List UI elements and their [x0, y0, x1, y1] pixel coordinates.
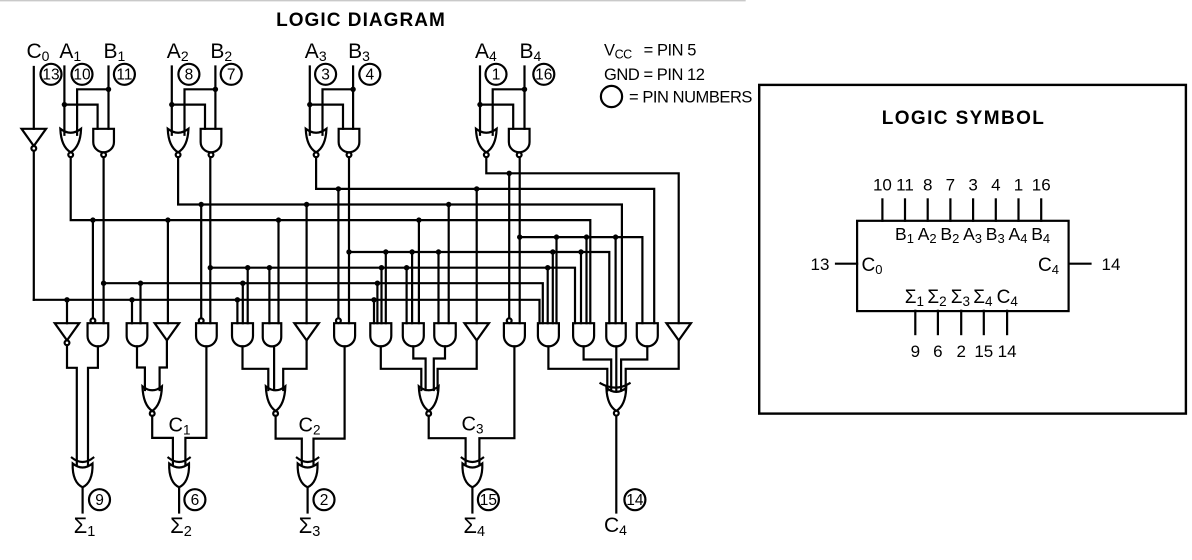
NAND gate bit3: [339, 129, 360, 153]
wire NOR2 bus tap x=306.6: [304, 202, 309, 207]
AND gate g11 (3-in): [403, 323, 424, 346]
wire C0n bus tap x=237.4: [235, 297, 240, 302]
pin circle 14 (C4 out): [624, 489, 645, 510]
wire g7 to C2 NOR: [273, 346, 275, 390]
wire NOR3 bus tap x=476.7: [474, 186, 479, 191]
svg-text:1: 1: [1014, 176, 1023, 195]
wire B2 input: [214, 67, 216, 129]
wire NAND3 bus tap x=412.1: [409, 249, 414, 254]
AND gate g18 (2-in): [637, 323, 658, 346]
wire A4 input: [479, 67, 481, 135]
wire NAND2 bus tap x=547.7: [545, 265, 550, 270]
pin circle 3 (A3): [315, 64, 336, 85]
wire NAND4 bus tap x=556.5: [554, 234, 559, 239]
wire NAND4 bus tap x=586.5: [584, 234, 589, 239]
XOR-AND gate bit3 (bubbled input): [336, 318, 341, 323]
pin circle 4 (B3): [359, 64, 380, 85]
symbol top pin 4: [995, 199, 997, 220]
wire NAND3 bus tap x=552.8: [550, 249, 555, 254]
wire B4 crossover to NOR: [493, 89, 525, 135]
XNOR gate C4 (carry out): [601, 383, 630, 387]
svg-text:6: 6: [191, 492, 200, 509]
wire B3 input: [352, 67, 354, 129]
svg-text:9: 9: [911, 342, 920, 361]
svg-text:15: 15: [480, 492, 497, 509]
symbol bottom pin 2: [960, 311, 962, 334]
wire xor-and2 to sum2 XOR: [185, 346, 206, 465]
wire NAND3 bus tap x=385.8: [383, 249, 388, 254]
pin circle 15 (sum4): [478, 489, 499, 510]
inverter C0 (top): [22, 129, 47, 146]
wire NAND1 output vertical: [102, 157, 104, 323]
wire g11 to C3 NOR: [413, 346, 425, 390]
svg-text:LOGIC DIAGRAM: LOGIC DIAGRAM: [276, 10, 446, 31]
wire sum3 output: [307, 487, 309, 512]
inverter row2 (C0 buffer for sum1): [55, 323, 80, 340]
XOR gate sum4: [462, 458, 483, 462]
symbol top pin 11: [904, 199, 906, 220]
NAND gate bit1: [93, 129, 114, 152]
wire g10 to C3 NOR: [381, 346, 422, 390]
symbol top pin 1: [1017, 199, 1019, 220]
symbol top pin 8: [927, 199, 929, 220]
svg-text:8: 8: [923, 176, 932, 195]
svg-text:4: 4: [365, 67, 374, 84]
AND gate g3 (C0n·P1): [127, 323, 148, 346]
wire sum2 output: [178, 487, 180, 512]
wire NAND2 bus tap x=269.4: [267, 265, 272, 270]
symbol top pin 16: [1040, 199, 1042, 220]
wire g18 to C4 gate: [621, 346, 647, 390]
wire g15 to C4 gate: [548, 346, 607, 390]
pin circle 6 (sum2): [184, 489, 205, 510]
wire NOR1 bus tap x=167.9: [165, 217, 170, 222]
wire g8 to C2 NOR: [283, 340, 306, 390]
AND gate g12 (2-in): [434, 323, 456, 346]
wire B2 crossover to NOR: [185, 89, 216, 135]
NOR gate bit1: [60, 129, 81, 153]
svg-text:15: 15: [974, 342, 993, 361]
NOR gate C1: [142, 386, 162, 411]
pin circle 7 (B2): [221, 64, 242, 85]
wire B1 crossover to NOR: [77, 89, 108, 135]
svg-text:11: 11: [116, 67, 132, 84]
logic symbol outer box: [759, 85, 1186, 414]
wire NOR2 bus tap x=448.7: [446, 202, 451, 207]
scan artifact line (top edge): [0, 0, 745, 2]
wire C1 to sum2 XOR: [152, 416, 173, 465]
wire C3 to sum4 XOR: [429, 416, 466, 465]
AND gate g17 (3-in): [606, 323, 626, 346]
svg-text:8: 8: [185, 67, 194, 84]
svg-text:3: 3: [968, 176, 977, 195]
AND gate g15 (5-in): [538, 323, 559, 346]
wire NAND3 bus tap x=581.0: [578, 249, 583, 254]
wire g4 to C1 NOR: [160, 340, 167, 390]
wire NOR2 output bus (y=204.5): [178, 157, 622, 323]
wire NOR2 bus tap x=201.2: [199, 202, 204, 207]
AND gate g10 (4-in): [370, 323, 391, 346]
symbol top pin 7: [949, 199, 951, 220]
svg-text:14: 14: [626, 492, 644, 509]
wire g6 to C2 NOR: [243, 346, 269, 390]
svg-text:14: 14: [998, 342, 1017, 361]
wire NAND2 bus (y=267.7): [210, 268, 575, 324]
wire NAND2 bus tap x=247.7: [245, 265, 250, 270]
svg-text:GND = PIN 12: GND = PIN 12: [604, 66, 705, 84]
wire xor-and4 to sum4 XOR: [479, 346, 514, 465]
wire NOR1 bus tap x=418.9: [416, 217, 421, 222]
legend pin-number circle: [601, 86, 622, 107]
wire C0n bus (y=299.8): [34, 300, 540, 323]
wire NOR1 bus tap x=92.9: [90, 217, 95, 222]
wire A2 input: [171, 67, 173, 135]
svg-text:LOGIC SYMBOL: LOGIC SYMBOL: [882, 108, 1046, 129]
svg-text:16: 16: [1032, 176, 1051, 195]
symbol bottom pin 9: [914, 311, 916, 334]
wire NAND3 bus (y=252): [349, 252, 609, 323]
svg-text:14: 14: [1102, 255, 1121, 274]
NOR gate C3: [419, 386, 439, 411]
symbol bottom pin 15: [983, 311, 985, 334]
wire A1 input: [63, 67, 65, 135]
symbol right pin 14 (C4): [1069, 263, 1091, 265]
wire sum1 output: [81, 487, 83, 512]
wire C0n bus tap x=132.0: [129, 297, 134, 302]
XOR gate sum3: [297, 458, 318, 462]
wire C4 output: [615, 416, 617, 513]
svg-text:13: 13: [811, 255, 830, 274]
svg-text:16: 16: [535, 67, 552, 84]
wire C0n vertical: [33, 151, 35, 300]
wire C0n bus tap x=374.0: [371, 297, 376, 302]
XOR gate sum1: [72, 458, 93, 462]
wire NAND1 bus tap x=377.4: [375, 281, 380, 286]
wire xor-and1 to sum1 XOR: [88, 346, 98, 465]
wire A3 crossover to NAND: [310, 105, 343, 129]
NOR gate bit4: [476, 129, 497, 153]
svg-text:9: 9: [95, 492, 104, 509]
wire NOR1 output bus (y=220): [71, 157, 591, 323]
wire C0n bus tap x=67.0: [64, 297, 69, 302]
wire C0 input: [33, 67, 35, 129]
svg-text:= PIN NUMBERS: = PIN NUMBERS: [629, 89, 752, 107]
wire g13 to C3 NOR: [438, 340, 477, 390]
XOR gate sum2: [168, 458, 189, 462]
wire NAND4 output vertical: [519, 157, 521, 323]
NOR gate bit3: [306, 129, 327, 153]
svg-text:4: 4: [991, 176, 1000, 195]
wire NOR1 bus tap x=278.5: [276, 217, 281, 222]
svg-text:10: 10: [73, 67, 91, 84]
NAND gate bit4: [509, 129, 530, 153]
wire NAND1 bus tap x=242.8: [240, 281, 245, 286]
svg-text:7: 7: [227, 67, 236, 84]
buffer triangle g13 (G3): [464, 323, 489, 340]
XOR-AND gate bit1 (bubbled input): [91, 318, 96, 323]
symbol bottom pin 14: [1006, 311, 1008, 334]
wire A4 crossover to NAND: [480, 105, 513, 129]
pin circle 16 (B4): [533, 64, 554, 85]
wire A1 crossover to NAND: [64, 105, 97, 129]
svg-text:1: 1: [492, 67, 501, 84]
pin circle 13: [41, 64, 62, 85]
wire g3 to C1 NOR: [137, 346, 145, 390]
logic symbol chip body: [857, 221, 1069, 311]
wire xor-and3 to sum3 XOR: [314, 346, 345, 465]
svg-text:3: 3: [321, 67, 330, 84]
wire NOR3 bus tap x=338.4: [336, 186, 341, 191]
wire B3 crossover to NOR: [323, 89, 354, 135]
pin circle 9 (sum1): [89, 489, 110, 510]
wire NAND2 bus tap x=406.6: [404, 265, 409, 270]
svg-text:13: 13: [42, 67, 59, 84]
svg-text:11: 11: [896, 176, 914, 195]
wire B4 input: [523, 67, 525, 129]
wire NOR4 output bus (y=173.3): [486, 157, 678, 323]
wire NOR3 output bus (y=188.9): [316, 157, 654, 323]
pin circle 10 (A1): [72, 64, 93, 85]
wire g12 to C3 NOR: [434, 346, 445, 390]
wire NAND1 bus tap x=140.5: [138, 281, 143, 286]
wire NAND4 bus tap x=615.6: [613, 234, 618, 239]
wire NAND3 output vertical: [348, 157, 350, 323]
svg-text:6: 6: [933, 342, 942, 361]
wire g17 to C4 gate: [615, 346, 617, 390]
wire A3 input: [309, 67, 311, 135]
wire g19 to C4 gate: [626, 340, 679, 390]
wire A2 crossover to NAND: [172, 105, 205, 129]
AND gate g6 (3-in): [232, 323, 253, 346]
NOR gate C2: [266, 386, 286, 411]
wire NAND3 bus tap x=438.5: [436, 249, 441, 254]
svg-text:10: 10: [873, 176, 892, 195]
pin circle 2 (sum3): [314, 489, 335, 510]
buffer triangle g19 (G4): [666, 323, 691, 340]
buffer triangle g8 (G2): [294, 323, 319, 340]
wire NAND1 bus (y=283.2): [104, 283, 543, 323]
AND gate g16 (4-in): [573, 323, 594, 346]
svg-text:2: 2: [956, 342, 965, 361]
buffer triangle g4 (G1): [155, 323, 180, 340]
wire NAND2 bus tap x=381.5: [379, 265, 384, 270]
symbol bottom pin 6: [937, 311, 939, 334]
wire g16 to C4 gate: [584, 346, 612, 390]
XOR-AND gate bit2 (bubbled input): [199, 318, 204, 323]
XOR-AND gate bit4 (bubbled input): [507, 318, 512, 323]
symbol top pin 3: [972, 199, 974, 220]
NAND gate bit2: [201, 129, 222, 153]
NOR gate bit2: [168, 129, 189, 153]
wire NAND2 output vertical: [209, 157, 211, 323]
pin circle 11 (B1): [114, 64, 135, 85]
AND gate g7 (2-in): [263, 323, 282, 346]
symbol top pin 10: [881, 199, 883, 220]
wire C2 to sum3 XOR: [276, 416, 302, 465]
wire NOR4 bus tap x=509.2: [507, 171, 512, 176]
wire NAND4 bus (y=237.1): [520, 237, 643, 323]
pin circle 1 (A4): [486, 64, 507, 85]
wire B1 input: [107, 67, 109, 129]
svg-text:2: 2: [320, 492, 329, 509]
wire inv-C0 to sum1 XOR: [67, 345, 77, 465]
svg-text:7: 7: [946, 176, 955, 195]
symbol left pin 13 (C0): [836, 263, 857, 265]
wire sum4 output: [471, 487, 473, 512]
pin circle 8 (A2): [178, 64, 199, 85]
